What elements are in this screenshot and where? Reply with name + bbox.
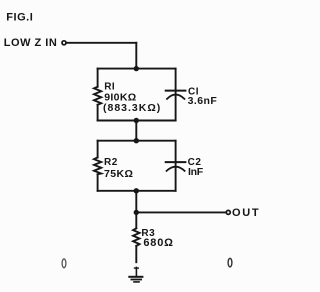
node junction box2 top [134,138,139,143]
wire input horizontal [66,42,136,44]
svg-text:680Ω: 680Ω [143,237,173,249]
wire middle connector [135,121,137,141]
svg-text:FIG.I: FIG.I [6,12,33,24]
wire box1 bottom rail [98,120,176,122]
wire box2 left upper lead [97,141,99,158]
svg-text:75KΩ: 75KΩ [104,168,133,180]
node junction output [134,210,139,215]
resistor R2 [94,157,101,174]
resistor R3 [133,228,139,246]
svg-text:OUT: OUT [232,207,260,219]
svg-text:3.6nF: 3.6nF [188,95,218,107]
wire box1 left upper lead [97,69,99,87]
wire R3 upper lead [135,212,137,228]
wire box1 right lead [175,69,177,121]
svg-text:R2: R2 [104,157,118,168]
wire bottom connector [135,191,137,213]
resistor R1 [94,87,101,105]
artifact zero right [228,258,232,267]
node junction box2 bottom [134,188,139,193]
node junction box1 top [134,66,139,71]
svg-text:(883.3KΩ): (883.3KΩ) [103,102,161,114]
wire input vertical drop [135,43,137,69]
wire box2 right lead [175,141,177,191]
node junction box1 bottom [134,118,139,123]
node LOW Z IN terminal [62,41,66,45]
wire output horizontal [136,211,226,213]
wire R3 lower lead [135,246,137,262]
wire box2 left lower lead [97,174,99,191]
svg-text:InF: InF [188,166,204,178]
capacitor C2 [166,162,186,171]
capacitor C1 [166,91,186,99]
ground [129,267,142,282]
artifact zero left [62,259,66,268]
wire box2 top rail [98,140,176,142]
wire box1 left lower lead [97,105,99,121]
node OUT terminal [226,210,230,214]
wire box1 top rail [98,68,176,70]
wire box2 bottom rail [98,190,176,192]
svg-text:LOW Z IN: LOW Z IN [4,37,58,49]
